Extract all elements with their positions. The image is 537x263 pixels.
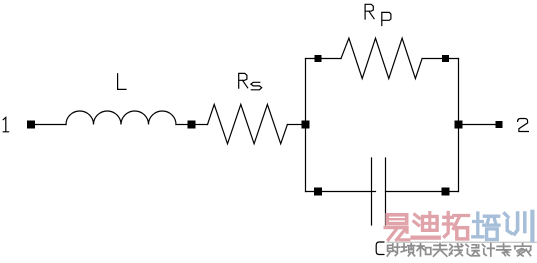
char 专 bbox=[497, 244, 511, 256]
capacitor C right plate bbox=[385, 158, 387, 225]
node B (left side of parallel group) bbox=[302, 121, 310, 129]
char 和 bbox=[417, 244, 431, 256]
inductor L bbox=[66, 111, 176, 125]
char 拓 bbox=[444, 213, 469, 239]
char 家 bbox=[515, 244, 531, 256]
node C1 (top-left of Rp) bbox=[315, 55, 322, 62]
label C bbox=[376, 242, 384, 255]
char 训 bbox=[505, 212, 533, 240]
char 培 bbox=[473, 213, 499, 240]
node terminal 2 bbox=[496, 121, 503, 128]
wire bottom-right segment bbox=[386, 191, 459, 193]
wire top-left segment bbox=[306, 58, 342, 60]
watermark rule bbox=[387, 241, 537, 243]
char 迪 bbox=[413, 213, 439, 238]
node E (output junction) bbox=[455, 121, 463, 129]
terminal label 2 bbox=[518, 119, 529, 132]
label L bbox=[118, 74, 126, 90]
node A (L-Rs junction) bbox=[188, 121, 196, 129]
capacitor C left plate bbox=[371, 158, 373, 225]
wire node A to Rs bbox=[196, 124, 208, 126]
wire left vertical of parallel group bbox=[305, 59, 307, 192]
label Rs : s subscript bbox=[251, 82, 262, 90]
node D1 (bottom-left of C) bbox=[314, 188, 322, 196]
wire node E to terminal 2 bbox=[463, 124, 496, 126]
node terminal 1 bbox=[27, 121, 35, 129]
watermark small characters 射频和天线设计专家 bbox=[387, 244, 531, 257]
label Rs : R bbox=[239, 73, 248, 88]
resistor Rs bbox=[208, 104, 288, 143]
char 易 bbox=[385, 215, 409, 240]
wire terminal1 to L bbox=[35, 124, 66, 126]
node D2 (bottom-right of C) bbox=[442, 188, 450, 196]
watermark big characters 易迪拓培训 bbox=[385, 213, 468, 240]
wire right vertical of parallel group bbox=[458, 59, 460, 192]
char 设 bbox=[466, 244, 479, 255]
node C2 (top-right of Rp) bbox=[442, 55, 449, 62]
wire bottom-left segment bbox=[306, 191, 376, 193]
wire top-right segment bbox=[422, 58, 458, 60]
char 天 bbox=[433, 244, 447, 256]
char 频 bbox=[401, 244, 415, 256]
label Rp : R bbox=[365, 4, 374, 19]
terminal label 1 bbox=[3, 117, 8, 131]
resistor Rp bbox=[341, 38, 422, 78]
wire Rs to node B bbox=[287, 124, 301, 126]
char 计 bbox=[482, 244, 494, 256]
char 射 bbox=[387, 244, 399, 256]
wire L to node A bbox=[176, 124, 188, 126]
char 线 bbox=[449, 244, 462, 256]
label Rp : p subscript bbox=[382, 12, 391, 25]
